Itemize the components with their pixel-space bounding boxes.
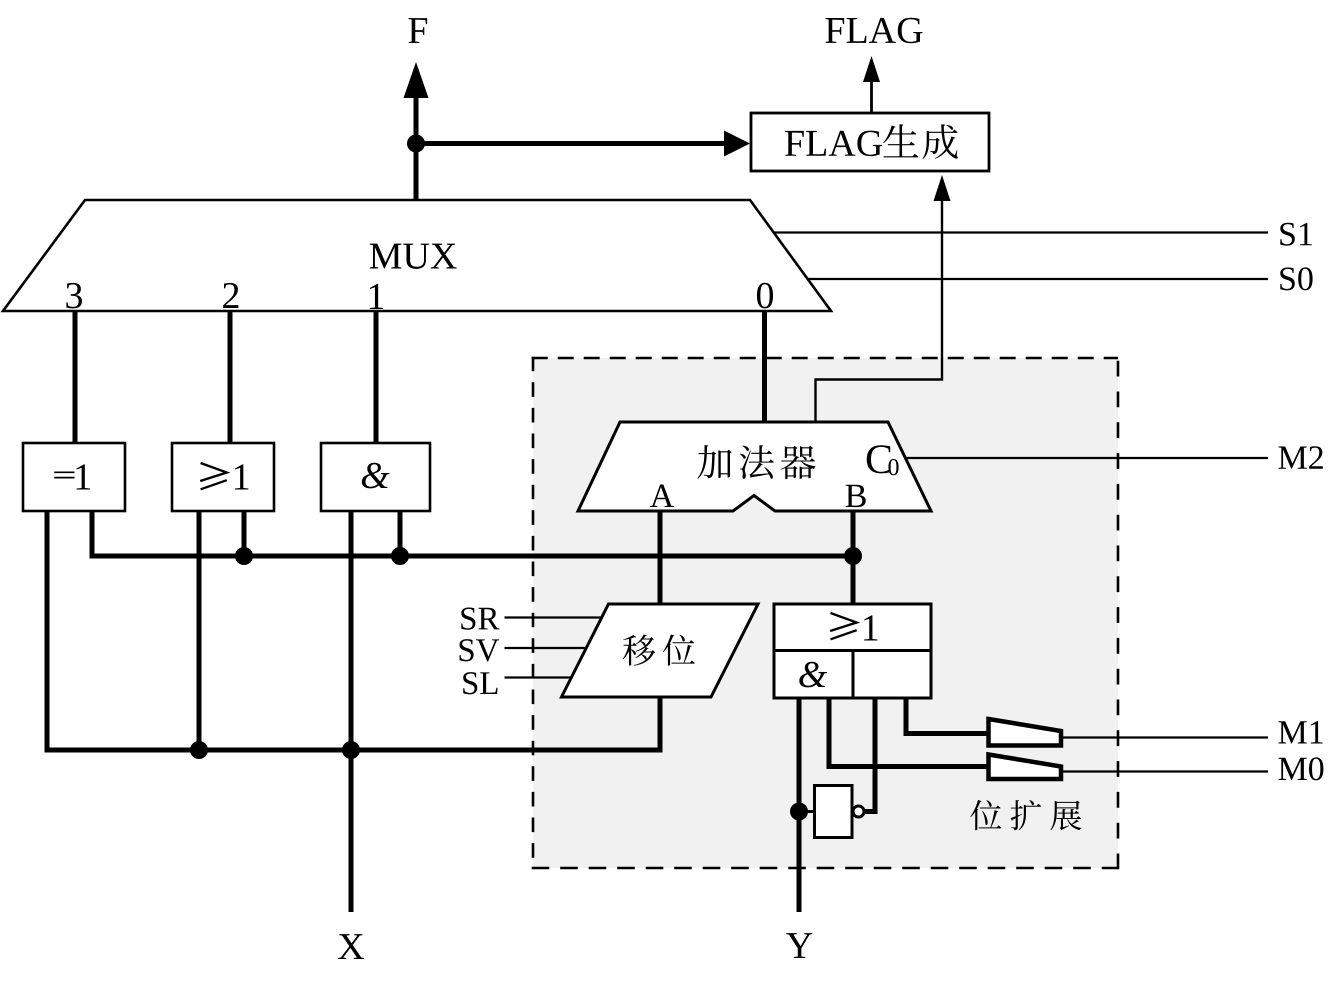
wire SL control bbox=[505, 676, 573, 678]
adder 加法器 trapezoid with notch bbox=[578, 422, 931, 511]
wire MUX input 3 stub bbox=[73, 311, 78, 445]
box FLAG生成 flag generator bbox=[751, 113, 989, 171]
dashed border right edge bbox=[1117, 357, 1120, 870]
junction dot OR pin on Y bus bbox=[235, 547, 253, 565]
wire S0 select line bbox=[807, 278, 1268, 280]
wire & cell pin elbow to M0 taper bbox=[829, 698, 988, 767]
arrowhead FLAG bbox=[863, 56, 880, 82]
wire NOT output elbow up into right cell bbox=[864, 698, 875, 812]
dashed border top edge bbox=[532, 357, 1118, 360]
block bit-extend OR/AND cells bbox=[774, 604, 931, 698]
net label M2 bbox=[1278, 446, 1322, 469]
pin number 3 bbox=[66, 283, 82, 309]
junction dot B pin on Y bus bbox=[844, 547, 862, 565]
wire MUX input 0 from adder output bbox=[762, 311, 767, 424]
wire OR right pin to Y bus bbox=[242, 511, 247, 556]
pin number 0 bbox=[757, 283, 773, 309]
inverter NOT gate box bbox=[815, 786, 853, 838]
gate OR >=1 bbox=[172, 443, 274, 511]
junction dot node Y bbox=[790, 803, 808, 821]
net label SL bbox=[463, 672, 497, 694]
arrowhead into FLAG生成 bbox=[724, 131, 750, 157]
net label M1 bbox=[1278, 721, 1322, 743]
wire X operand bus (thick, elbow up to shifter) bbox=[47, 697, 660, 750]
wire AND left output down (X input line) bbox=[349, 511, 354, 912]
wire right cell pin elbow to M1 taper bbox=[906, 698, 988, 734]
wire M2 carry-in line bbox=[904, 457, 1268, 459]
label 位扩展 bit extension bbox=[970, 800, 1081, 830]
net label S1 bbox=[1280, 223, 1312, 246]
pin number 1 bbox=[370, 284, 383, 309]
wire adder input A from shifter bbox=[658, 511, 663, 604]
taper symbol M1 bus reducer bbox=[989, 719, 1062, 746]
wire adder carry-out to FLAG generator (elbow) bbox=[816, 200, 943, 424]
wire XOR right pin elbow to Y bus bbox=[92, 511, 533, 556]
wire AND right pin to Y bus bbox=[398, 511, 403, 556]
label 加法器 bbox=[697, 445, 815, 479]
inverter bubble bbox=[853, 806, 864, 817]
gate XOR =1 bbox=[23, 443, 125, 511]
wire Y operand bus (thick horizontal) bbox=[533, 554, 853, 559]
label FLAG生成 bbox=[785, 124, 958, 159]
input label Y bbox=[786, 933, 812, 958]
wire OR left output down to X bus bbox=[197, 511, 202, 750]
wire M0 line bbox=[1061, 770, 1268, 772]
dashed region bit-slice block (gray group box) bbox=[533, 358, 1118, 868]
pin label B bbox=[846, 485, 866, 507]
wire F to FLAG generator (horizontal thick) bbox=[416, 141, 727, 146]
label =1 bbox=[54, 464, 90, 489]
node label FLAG bbox=[825, 18, 922, 44]
junction dot node F bbox=[407, 135, 425, 153]
pin label A bbox=[650, 485, 674, 507]
shifter 移位 parallelogram bbox=[562, 604, 759, 697]
label >=1 (slanted geq symbol) bbox=[200, 463, 248, 490]
wire FLAG output arrow bbox=[870, 78, 873, 113]
wire S1 select line bbox=[773, 231, 1268, 233]
label >=1 (bit-extend, slanted geq) bbox=[830, 613, 877, 641]
node label F bbox=[408, 18, 427, 43]
dashed border left edge bbox=[532, 357, 535, 868]
label C0 carry-in pin bbox=[867, 445, 899, 475]
wire NOT input from Y node bbox=[799, 810, 815, 813]
input label X bbox=[338, 934, 364, 959]
taper symbol M0 bus reducer bbox=[989, 755, 1062, 780]
wire MUX input 1 stub bbox=[374, 311, 379, 445]
net label M0 bbox=[1278, 757, 1323, 780]
label & (italic) bbox=[362, 463, 390, 489]
label MUX bbox=[370, 244, 457, 269]
label & (bit-extend, italic) bbox=[799, 662, 827, 688]
junction dot AND pin on Y bus bbox=[391, 547, 409, 565]
net label SR bbox=[461, 608, 499, 630]
net label SV bbox=[460, 639, 500, 661]
dashed border bottom edge bbox=[532, 867, 1118, 870]
wire Y input line up into & cell bbox=[797, 698, 802, 912]
label 移位 bbox=[623, 634, 695, 665]
wire MUX output F (vertical thick) bbox=[414, 70, 419, 200]
wire SV control bbox=[505, 647, 588, 649]
gate AND & bbox=[321, 443, 430, 511]
net label S0 bbox=[1280, 267, 1312, 290]
arrowhead F bbox=[404, 62, 429, 98]
pin number 2 bbox=[223, 283, 238, 308]
junction dot AND output / X node on X bus bbox=[342, 741, 360, 759]
wire M1 line bbox=[1061, 736, 1268, 738]
wire adder input B from Y bus bbox=[851, 511, 856, 604]
wire MUX input 2 stub bbox=[228, 311, 233, 445]
mux MUX trapezoid bbox=[3, 200, 831, 311]
arrowhead carry into FLAG生成 bbox=[934, 175, 951, 201]
junction dot OR output on X bus bbox=[190, 741, 208, 759]
wire XOR left output down to X bus bbox=[45, 511, 50, 748]
wire SR control bbox=[505, 616, 603, 618]
